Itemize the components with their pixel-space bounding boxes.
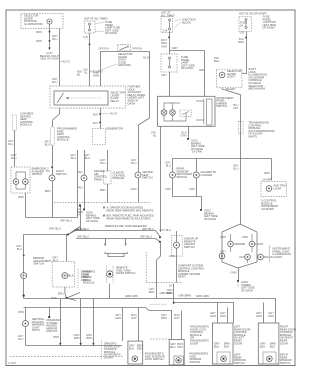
leader to 42 GY (59, 61, 62, 63)
ash tray lamp (266, 186, 272, 192)
lamp filament dot (49, 21, 51, 23)
ground arrow G107 (48, 48, 51, 51)
svg-text:GRYBLU: GRYBLU (129, 344, 135, 351)
svg-text:GRYBLU: GRYBLU (170, 342, 176, 349)
svg-text:GRY: GRY (161, 73, 167, 77)
svg-text:BLUGRY: BLUGRY (233, 103, 239, 110)
ash tray dashed box (261, 182, 286, 197)
svg-text:GRN: GRN (161, 45, 167, 49)
svg-text:BLK: BLK (93, 113, 98, 117)
fuse F4 element (245, 19, 247, 29)
svg-text:GRYBLU: GRYBLU (8, 139, 14, 146)
collector arrowheads (60, 343, 95, 345)
svg-text:GRYBLU: GRYBLU (11, 153, 17, 160)
dimmer lamp 1 (161, 110, 167, 116)
svg-text:S-B: S-B (240, 31, 245, 35)
fuse F1 dashed box (85, 21, 96, 33)
svg-text:GRYBRN: GRYBRN (149, 287, 155, 294)
svg-text:GRYBLU: GRYBLU (84, 153, 90, 160)
connector tick F4 (245, 37, 247, 39)
cluster lamp center-right (249, 241, 255, 247)
lower lock bus (76, 239, 161, 242)
box A feeds (123, 308, 139, 342)
rear window defogger switch circle (170, 172, 176, 178)
svg-text:BRN: BRN (18, 195, 24, 199)
svg-text:GRY BLU: GRY BLU (60, 219, 72, 223)
svg-text:BRNRED: BRNRED (137, 344, 143, 351)
svg-text:BLKBRN: BLKBRN (238, 37, 244, 44)
relay K1 box (54, 91, 108, 105)
comfort boundary dashed stub (150, 303, 167, 305)
flasher internal wires (16, 172, 25, 189)
svg-text:RIGHT: RIGHT (264, 255, 273, 259)
svg-text:GRY: GRY (220, 250, 226, 254)
svg-text:BRNBLK: BRNBLK (270, 342, 276, 349)
wire right switch leg to heated seat sw (139, 118, 150, 172)
junction dot comfort output (173, 302, 175, 304)
svg-text:GRYGRN: GRYGRN (115, 313, 121, 320)
svg-text:GRN BRN: GRN BRN (160, 291, 172, 295)
emergency flasher dashed box (11, 167, 30, 193)
main lock bus H1 (24, 299, 276, 324)
box A switch circle (132, 356, 138, 362)
ground collector bus (26, 345, 123, 347)
collector verticals (61, 299, 94, 346)
svg-text:42 GY: 42 GY (110, 112, 118, 116)
cluster ground wire (238, 268, 240, 280)
remote unlock switch feed stub (176, 231, 178, 242)
mirror assy circle (62, 273, 68, 279)
upper lock bus (76, 231, 161, 238)
remote fuel tank door switch circle (107, 271, 113, 277)
fuse F2 dashed box (161, 17, 173, 33)
svg-text:GRN: GRN (165, 187, 171, 191)
wire fuse F1 down to relay coil (89, 33, 91, 86)
svg-text:GENERATOR: GENERATOR (106, 127, 123, 131)
mirror feed horizontal (24, 234, 69, 236)
fuse F1 element (89, 23, 91, 31)
svg-text:GRYBLU: GRYBLU (52, 77, 58, 84)
X junction dot (66, 297, 68, 299)
fuse F1 label leaders (95, 23, 104, 32)
svg-text:GRYGRN: GRYGRN (220, 311, 226, 318)
cigarette lighter circle (193, 172, 199, 178)
dimmer rheostat dashed box (180, 110, 191, 116)
fuse F4 dashed box (239, 16, 251, 31)
kick panel dashed edge (77, 269, 79, 288)
comfort module dashed boundary horizontal (146, 282, 182, 284)
connector tick mirror column (23, 255, 25, 257)
cluster lamp bottom-mid (245, 254, 251, 260)
svg-text:GRY BLU: GRY BLU (140, 234, 152, 238)
left connector dashed box (13, 115, 17, 131)
connector tick above C2 (51, 167, 53, 169)
selector lever illumination dashed box (21, 14, 63, 29)
wire pair x77 from top (77, 150, 79, 218)
svg-text:GRN GRN: GRN GRN (125, 294, 138, 298)
connector strap symbol (105, 252, 127, 257)
ground dot G202 (200, 209, 202, 211)
svg-text:24: 24 (169, 284, 172, 288)
wire left mirror column (23, 235, 25, 273)
svg-text:A-42GRN: A-42GRN (93, 71, 99, 78)
passenger window switch box B (169, 340, 184, 366)
notes bullet 2 (103, 215, 105, 217)
svg-text:GRNBRN: GRNBRN (86, 333, 92, 340)
cluster lamp center-left (228, 241, 234, 247)
drop to ash tray light (271, 159, 273, 181)
comfort module dashed boundary vertical (145, 252, 147, 283)
wire connector to light switch circle (52, 145, 54, 175)
svg-text:GRYBLU: GRYBLU (233, 164, 239, 171)
illumination bus horizontal (173, 158, 272, 160)
svg-text:B/O: REMOTE FUEL TANK MOUNTEDR: B/O: REMOTE FUEL TANK MOUNTEDREAR VIEW R… (107, 214, 154, 221)
X junction diagonals (67, 293, 80, 301)
junction dot BLK 1 (99, 113, 101, 115)
left rear door module box C (212, 323, 233, 364)
svg-text:BLKGRN: BLKGRN (181, 131, 187, 138)
svg-text:GRY BLU: GRY BLU (159, 228, 171, 232)
svg-text:BRN: BRN (18, 310, 24, 314)
cluster ground dot G303 (237, 280, 239, 282)
fuse F2 element (169, 19, 171, 30)
branch wire to dimmer right side (170, 51, 205, 97)
box C switch circle (221, 356, 227, 362)
svg-text:GRYBLU: GRYBLU (131, 158, 137, 165)
climate control module connector C4 (107, 150, 109, 171)
wire F4 down (242, 31, 247, 73)
svg-text:BRN: BRN (264, 171, 270, 175)
svg-text:GRN: GRN (169, 254, 175, 258)
svg-text:GRN BRN: GRN BRN (179, 294, 191, 298)
svg-text:GRYBLU: GRYBLU (52, 34, 58, 41)
svg-text:TAN: TAN (77, 186, 82, 190)
svg-text:GRYBLU: GRYBLU (100, 158, 106, 165)
wire dimmer left output down (160, 126, 162, 232)
svg-text:GRYGRN: GRYGRN (210, 311, 216, 318)
heated mirrors dot (48, 316, 50, 318)
box C feeds (218, 303, 228, 324)
heated air control circle C3 (81, 175, 87, 181)
relay K1 coil arrow dashed (68, 97, 101, 99)
svg-text:CENTER: CENTER (234, 242, 245, 246)
relay K1 contact arm (57, 93, 64, 103)
svg-text:GRNBRN: GRNBRN (74, 333, 80, 340)
ground path defogger and lighter (173, 178, 202, 209)
svg-text:1/1997: 1/1997 (8, 361, 17, 365)
shift lock illumination dashed box (216, 69, 242, 88)
junction dot BLK 2 (99, 122, 101, 124)
svg-text:OFF/ON: OFF/ON (132, 47, 142, 51)
right rear door module box D (258, 323, 279, 364)
wire left column down (14, 131, 16, 168)
wire C3 to ground dot (84, 181, 86, 209)
dashed ground tail (237, 282, 239, 287)
svg-text:GRY: GRY (199, 68, 205, 72)
svg-text:14 GRN: 14 GRN (263, 178, 273, 182)
svg-text:GRY BLU: GRY BLU (77, 227, 89, 231)
dimmer lamp 2 (170, 110, 176, 116)
svg-text:GRYBLU: GRYBLU (260, 342, 266, 349)
svg-text:BUSRST: BUSRST (178, 342, 184, 349)
svg-text:GRYBLU: GRYBLU (165, 161, 171, 168)
cluster internal links (231, 234, 258, 263)
wire lamp to ground (49, 25, 51, 50)
svg-text:GRN: GRN (220, 235, 226, 239)
svg-text:BRNBLK: BRNBLK (224, 342, 230, 349)
svg-text:OFF: OFF (239, 255, 245, 259)
wire unlock switch down (176, 248, 178, 282)
ground bus horizontal (26, 217, 78, 219)
fuse F3 dashed box (161, 54, 177, 72)
instrument panel dimmer switch box (158, 96, 216, 126)
light switch circle C2 (49, 175, 55, 181)
wire GRY BLU from box to relay (59, 29, 61, 87)
svg-text:PASSENGER'SSIDE INTERIORLOCK S: PASSENGER'SSIDE INTERIORLOCK SWITCH (145, 352, 165, 362)
wire F2 down (169, 31, 171, 54)
wire flasher to bus (25, 193, 27, 218)
lock bus H2 (174, 303, 234, 324)
box D inner switch box (263, 352, 276, 364)
svg-text:BRN: BRN (51, 296, 57, 300)
box C inner switch box (217, 352, 230, 364)
svg-text:BRN: BRN (45, 189, 51, 193)
driver door lock module dashed edge (101, 340, 103, 360)
switch actuator dashed box (118, 45, 131, 51)
box D switch circle (267, 356, 273, 362)
flasher lamp 2 (23, 179, 29, 185)
svg-text:42 GY: 42 GY (63, 60, 71, 64)
wire switch leg down to generator (100, 108, 102, 129)
wire to door mirror assy (66, 235, 68, 262)
svg-text:GRYBLU: GRYBLU (44, 140, 50, 147)
interior lock switch box A (128, 341, 143, 364)
svg-text:BRN: BRN (100, 188, 106, 192)
wire shift lock to TCM (222, 88, 240, 224)
driver door mirror dashed box (52, 261, 74, 287)
lock bus H3 (24, 308, 172, 340)
bus merge dots (159, 236, 161, 238)
climate module dashed box (104, 171, 112, 184)
fuse F3 element (169, 57, 171, 68)
svg-text:14 GRN: 14 GRN (192, 150, 202, 154)
bottom dashed boundary (10, 356, 124, 358)
collector ticks (59, 343, 61, 345)
dimmer internal wires (164, 99, 212, 125)
switch arrow (120, 47, 129, 51)
svg-text:GRN: GRN (242, 235, 248, 239)
svg-text:GRYBRN: GRYBRN (161, 313, 167, 320)
TCM connector dashed box (239, 122, 244, 134)
wire dimmer ground (188, 126, 190, 138)
drop to cigarette lighter (196, 159, 198, 173)
svg-text:BLK: BLK (93, 121, 98, 125)
svg-text:MSBL: MSBL (83, 68, 88, 75)
fuse F2 leaders (175, 20, 182, 29)
connector tick on F1 wire (89, 44, 91, 46)
wire warning light to bus (25, 327, 27, 346)
connector programmed ride dashed box (51, 127, 55, 145)
svg-text:S-B: S-B (83, 35, 88, 39)
connector S1 (49, 31, 51, 33)
svg-text:GRYBLU: GRYBLU (18, 334, 24, 341)
fuel tank switch dashed cage (107, 266, 113, 284)
svg-text:BRN: BRN (36, 30, 42, 34)
wire mirror assy to X junction (65, 287, 67, 298)
bracket instrument panel lights (268, 246, 270, 262)
stub arrows below bus (106, 239, 126, 246)
long dashed bus mid (54, 202, 150, 204)
svg-text:OFF/ON: OFF/ON (98, 47, 108, 51)
wire x160 lower run (157, 242, 161, 299)
lamp L1 selector lever position illumination (47, 19, 52, 24)
box B feed right (181, 311, 183, 340)
svg-text:BLK: BLK (69, 274, 74, 278)
mirror switch circle (21, 273, 27, 279)
selector lever light switch frame (101, 45, 150, 118)
wire C5 to dashed bus (138, 178, 140, 203)
svg-text:REMOTE FUEL TANK DEFEATER: REMOTE FUEL TANK DEFEATER (105, 224, 147, 228)
svg-text:GRN GRN: GRN GRN (196, 294, 209, 298)
svg-text:GRYBLU: GRYBLU (70, 153, 76, 160)
notes bullet 1 (103, 207, 105, 209)
svg-text:GRYBLU: GRYBLU (214, 342, 220, 349)
relay panel dashed box (50, 86, 126, 108)
svg-text:GRN: GRN (131, 187, 137, 191)
cluster lamp right edge (258, 254, 264, 260)
svg-text:15ABLA: 15ABLA (214, 56, 219, 63)
ground dot G200 (83, 209, 85, 211)
flasher lamp 1 (13, 179, 19, 185)
svg-text:HOT AT ALL TIMES: HOT AT ALL TIMES (84, 17, 108, 21)
svg-text:GRY BLU: GRY BLU (142, 227, 154, 231)
wire C4 to dashed bus (107, 184, 109, 203)
wire mirror switch to bus H1 (23, 279, 25, 299)
svg-text:BRN: BRN (58, 292, 64, 296)
svg-text:BUSRST: BUSRST (131, 313, 137, 320)
ground dot G102 (187, 138, 189, 140)
svg-text:GRYGRN: GRYGRN (256, 311, 262, 318)
black square node W O (79, 205, 81, 207)
svg-text:GRN: GRN (231, 271, 237, 275)
central locking warning light circle (22, 321, 28, 327)
svg-text:TAN: TAN (77, 170, 82, 174)
wire into C3 (84, 150, 86, 175)
heated seat switch circle C5 (135, 172, 141, 178)
svg-text:TW: TW (45, 169, 50, 173)
svg-text:BRN: BRN (53, 335, 59, 339)
instrument cluster lamp network frame (222, 224, 257, 268)
connector S2 (49, 40, 51, 42)
generator dashed box (92, 129, 105, 145)
svg-text:GRY BLU: GRY BLU (77, 234, 89, 238)
junction dot mirror feed (67, 234, 69, 236)
wire note node to lock bus (80, 207, 82, 231)
connector square under mirror switch (23, 295, 25, 297)
connector tick F2 wire (168, 37, 170, 39)
remote unlock switch circle (174, 242, 180, 248)
dashed boundary right segment (150, 338, 169, 340)
comfort output wire (173, 284, 175, 303)
svg-text:42 GY: 42 GY (143, 56, 151, 60)
drop to rear window defogger switch (172, 159, 174, 173)
wire F3 to dimmer (169, 72, 171, 96)
svg-text:GRYGRN: GRYGRN (268, 311, 274, 318)
svg-text:WHTBRN: WHTBRN (161, 38, 167, 45)
svg-text:GRY: GRY (172, 46, 178, 50)
box B switch circle (174, 356, 183, 365)
svg-text:BUSRST: BUSRST (174, 313, 180, 320)
svg-text:GRY BLU: GRY BLU (49, 227, 61, 231)
wire fuel switch down (109, 284, 111, 299)
svg-text:LIGHT: LIGHT (256, 242, 264, 246)
remote unlock switch dashed cage (172, 236, 183, 257)
svg-text:BRN: BRN (36, 39, 42, 43)
wire C2 to bus (52, 181, 54, 218)
cluster lamp left edge (219, 253, 225, 259)
vertical to warning light (25, 308, 27, 321)
junction diagonals into mirror feed (68, 227, 80, 235)
heated mirrors spur (49, 308, 51, 317)
svg-text:GRN: GRN (189, 187, 195, 191)
wire relay to programmed ride connector (53, 108, 60, 127)
box D feed left (263, 303, 265, 324)
shift lock lamp (219, 72, 225, 78)
svg-text:GRYBLU: GRYBLU (16, 244, 22, 251)
svg-text:S-B: S-B (163, 29, 168, 33)
